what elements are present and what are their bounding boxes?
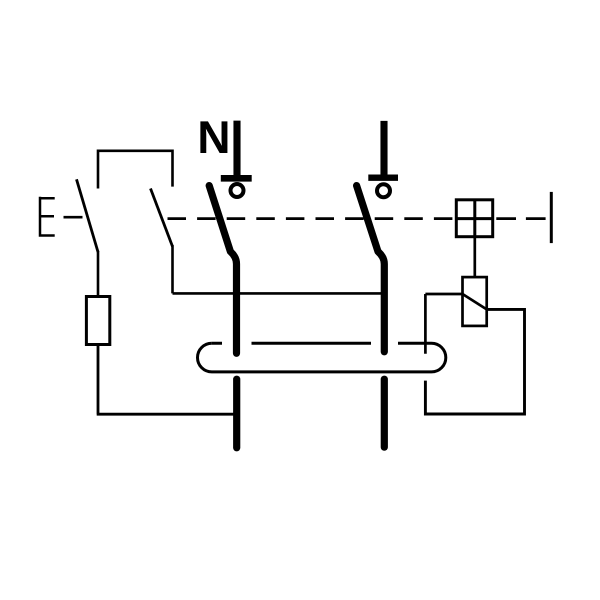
auxiliary switch contact S2 [151,189,173,247]
pole 1 terminal clamp bar [221,175,252,182]
linkage end stop bar [550,192,553,243]
pole 1 switch blade and conductor through CT [209,186,236,354]
pole 2 terminal clamp screw (circle) [377,184,390,197]
wire (relay left terminal to CT secondary, down through toroid) [425,294,462,354]
terminal E (test button marking) [39,197,55,237]
wire (E lead dash) [64,216,83,219]
pole 1 terminal clamp screw (circle) [231,184,244,197]
pole 2 terminal lead [380,121,387,178]
pole 2 conductor below CT [381,379,388,447]
mechanical linkage (dashed), left of actuator [168,217,456,220]
wire (resistor down and right to pole 1) [97,345,237,415]
pole 2 switch blade and conductor through CT [357,186,385,352]
wire (aux contact down, across to pole 2) [173,245,385,293]
trip mechanism actuator (crossed square) [456,200,492,237]
pole 1 terminal lead (N) [233,121,240,178]
label N (neutral pole) [200,121,227,153]
wire (switch to resistor) [97,251,100,296]
wire (CT secondary bottom loop to relay right terminal) [425,309,524,414]
pole 1 conductor below CT [233,379,240,448]
trip relay K (rect with diagonal) [463,277,487,326]
wire (actuator to trip relay) [473,237,476,277]
mechanical linkage (dashed), right of actuator [496,217,545,220]
resistor R (test resistor) [86,297,109,345]
current transformer toroid (stadium) [198,343,446,372]
test switch contact S1 [77,179,99,252]
wire (test circuit top bracket) [98,151,173,189]
pole 2 terminal clamp bar [368,174,398,180]
